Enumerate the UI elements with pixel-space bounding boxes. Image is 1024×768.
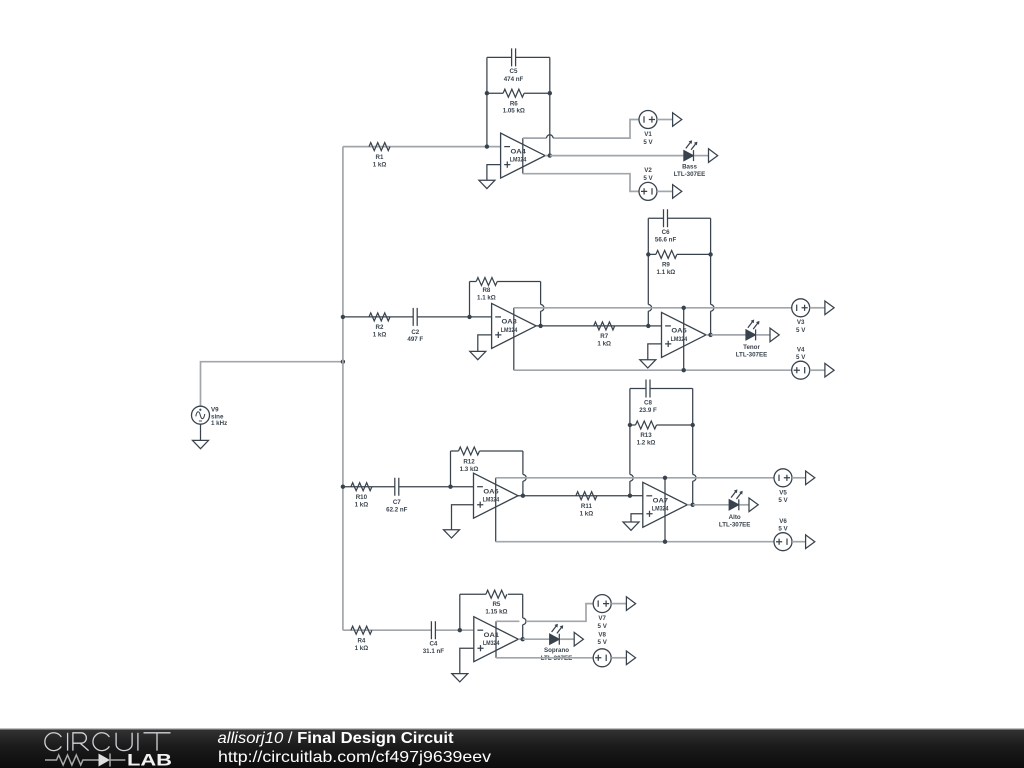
node stage2 bus junction: [341, 315, 345, 319]
wire R9 row: [648, 253, 710, 255]
wire hop C6R9-right over V+ row: [711, 305, 714, 312]
svg-text:Tenor: Tenor: [743, 344, 760, 351]
wire R12 left vertical: [450, 451, 452, 487]
wire R5 right vertical: [522, 594, 524, 639]
svg-text:R6: R6: [510, 100, 518, 107]
port flag V7: [626, 597, 635, 611]
svg-text:23.9 F: 23.9 F: [639, 407, 657, 414]
voltage source V7 5V: [593, 595, 611, 630]
wire OA4 output: [545, 155, 550, 157]
svg-text:C8: C8: [644, 400, 652, 407]
wire R12 row: [451, 450, 523, 452]
wire hop R5 over V+ row: [523, 618, 526, 625]
wire stage2 R7 to OA5: [648, 325, 661, 327]
op-amp OA1: [474, 617, 519, 662]
wire C6R9 right vertical: [710, 218, 712, 335]
node OA5 V- junction: [682, 368, 686, 372]
wire OA4 plus to ground: [487, 165, 501, 181]
wire OA6 plus to ground: [452, 505, 474, 530]
svg-text:5 V: 5 V: [598, 639, 608, 646]
wire R8 right vertical: [540, 282, 542, 326]
voltage source V4 5V: [792, 346, 810, 379]
wire hop C8R13-right over V+ row: [693, 474, 696, 481]
node R13 left junction: [628, 423, 632, 427]
svg-text:C7: C7: [393, 499, 401, 506]
wire stage2 input row: [343, 316, 492, 318]
svg-text:1 kHz: 1 kHz: [211, 420, 227, 427]
svg-text:497 F: 497 F: [407, 336, 423, 343]
svg-text:5 V: 5 V: [778, 526, 788, 533]
resistor R1: [369, 143, 390, 169]
port flag Bass output: [709, 149, 718, 163]
CircuitLab logo resistor-diode art: [45, 754, 125, 767]
wire OA6 output row: [518, 495, 630, 497]
svg-text:R5: R5: [492, 601, 500, 608]
svg-text:5 V: 5 V: [643, 139, 653, 146]
op-amp OA6: [474, 473, 519, 518]
svg-text:LM324: LM324: [510, 157, 527, 164]
svg-text:1.3 kΩ: 1.3 kΩ: [460, 466, 479, 473]
node R9 left junction: [646, 252, 650, 256]
capacitor C7: [386, 478, 408, 514]
wire hop R8 over V+ row: [541, 305, 544, 312]
wire stage3 output row: [693, 504, 729, 506]
wire V9 to bus: [201, 362, 343, 407]
wire V4 to port: [810, 369, 825, 371]
wire C8R13 right vertical: [692, 389, 694, 505]
resistor R10: [351, 483, 372, 509]
svg-text:1 kΩ: 1 kΩ: [580, 511, 594, 518]
port flag V5: [806, 471, 815, 485]
ground OA3: [470, 351, 486, 359]
svg-text:Soprano: Soprano: [544, 647, 569, 654]
voltage source V5 5V: [774, 469, 792, 504]
CircuitLab logo wordmark CIRCUIT: [45, 733, 171, 751]
svg-text:31.1 nF: 31.1 nF: [423, 648, 445, 655]
svg-text:LM324: LM324: [483, 497, 500, 504]
wire OA3 output row: [536, 325, 648, 327]
node V9-bus junction: [341, 360, 345, 364]
svg-text:R8: R8: [482, 287, 490, 294]
resistor R13: [636, 421, 657, 447]
svg-text:OA4: OA4: [511, 148, 527, 155]
wire OA7 power vertical: [664, 478, 666, 542]
wire R6 row: [487, 92, 550, 94]
node stage3 bus junction: [341, 485, 345, 489]
svg-text:1 kΩ: 1 kΩ: [355, 502, 369, 509]
wire R13 row: [630, 424, 693, 426]
wire C8 top row: [630, 388, 693, 390]
voltage source V3 5V: [792, 299, 810, 334]
svg-text:62.2 nF: 62.2 nF: [386, 507, 408, 514]
wire OA4 V- row to V2: [523, 174, 639, 192]
svg-text:LTL-307EE: LTL-307EE: [719, 522, 751, 529]
wire input bus: [342, 147, 344, 631]
wire V9 to ground: [200, 424, 202, 440]
voltage source V9: [192, 406, 228, 427]
node OA6 output: [521, 494, 525, 498]
wire V8 to port: [611, 657, 626, 659]
port flag V1: [673, 113, 682, 127]
ground OA5: [640, 360, 656, 368]
svg-text:OA1: OA1: [484, 632, 500, 639]
LED Bass LTL-307EE: [674, 140, 706, 178]
svg-text:1.15 kΩ: 1.15 kΩ: [485, 609, 507, 616]
capacitor C4: [423, 621, 445, 655]
wire OA3 plus to ground: [478, 335, 492, 352]
svg-text:OA7: OA7: [653, 498, 669, 505]
node OA7 V- junction: [663, 540, 667, 544]
svg-text:1.05 kΩ: 1.05 kΩ: [503, 107, 525, 114]
wire OA1 plus to ground: [460, 648, 474, 673]
node OA7 V+ junction: [663, 476, 667, 480]
svg-text:R7: R7: [600, 333, 608, 340]
wire OA5 power vertical: [683, 308, 685, 370]
LED Tenor LTL-307EE: [736, 320, 768, 359]
wire V1 to port: [657, 119, 673, 121]
wire hop C8R13-left over V+ row: [630, 474, 633, 481]
resistor R12: [459, 447, 480, 473]
svg-text:R9: R9: [662, 262, 670, 269]
svg-text:OA5: OA5: [671, 328, 687, 335]
resistor R7: [594, 322, 615, 348]
svg-text:C5: C5: [510, 68, 518, 75]
svg-text:R11: R11: [581, 503, 593, 510]
node OA7 output: [691, 503, 695, 507]
svg-text:LM324: LM324: [483, 640, 500, 647]
wire OA3 power vertical: [513, 308, 515, 370]
wire OA1 output: [518, 638, 522, 640]
ground OA4: [479, 180, 495, 188]
svg-text:V4: V4: [797, 346, 805, 353]
wire V7 to port: [611, 603, 626, 605]
wire OA1 power vertical: [495, 621, 497, 658]
wire C6 top row: [648, 217, 710, 219]
svg-text:5 V: 5 V: [778, 497, 788, 504]
op-amp OA4: [501, 133, 545, 178]
port flag V4: [825, 363, 834, 377]
wire OA7 plus to ground: [631, 514, 643, 522]
svg-text:R2: R2: [376, 324, 384, 331]
wire C5 top row: [487, 56, 550, 58]
svg-text:allisorj10 / Final Design Circ: allisorj10 / Final Design Circuit: [218, 730, 455, 747]
node OA5 inverting input: [646, 324, 650, 328]
ground below V9: [193, 440, 209, 448]
node OA6 inverting input: [448, 485, 452, 489]
wire stage2 V- row: [514, 369, 792, 371]
resistor R11: [576, 492, 597, 518]
op-amp OA3: [492, 303, 536, 348]
ground OA6: [444, 530, 460, 538]
svg-text:V3: V3: [797, 319, 805, 326]
voltage source V1 5V: [639, 111, 657, 146]
wire stage2 V+ row: [514, 307, 792, 309]
wire R8 left vertical: [469, 282, 471, 317]
port flag V3: [825, 301, 834, 315]
wire OA5 plus to ground: [648, 344, 662, 360]
svg-text:OA3: OA3: [502, 319, 518, 326]
resistor R5: [485, 590, 507, 616]
node R6 right junction: [548, 91, 552, 95]
svg-text:C2: C2: [411, 329, 419, 336]
svg-text:1.2 kΩ: 1.2 kΩ: [637, 440, 656, 447]
footer bar background: [0, 729, 1024, 768]
wire stage1 input row: [343, 146, 501, 148]
svg-text:1.1 kΩ: 1.1 kΩ: [477, 295, 496, 302]
resistor R2: [369, 313, 390, 339]
svg-text:R12: R12: [463, 458, 475, 465]
wire V5 to port: [792, 477, 806, 479]
svg-text:R10: R10: [356, 494, 368, 501]
wire stage3 V- row: [496, 541, 774, 543]
svg-text:LM324: LM324: [652, 506, 669, 513]
svg-text:LM324: LM324: [671, 336, 688, 343]
wire OA4 V+ row to V1: [523, 120, 639, 139]
svg-text:OA6: OA6: [483, 489, 499, 496]
LED Soprano LTL-307EE: [541, 624, 573, 662]
wire stage3 V+ row: [496, 477, 774, 479]
wire stage2 output row: [711, 334, 746, 336]
wire OA7 output: [687, 504, 692, 506]
capacitor C6: [655, 209, 677, 243]
wire C6R9 left vertical: [647, 218, 649, 326]
wire LED Soprano to port: [560, 638, 574, 640]
node OA3 inverting input: [467, 315, 471, 319]
wire OA1 V- row to V8: [496, 657, 593, 659]
svg-text:5 V: 5 V: [643, 175, 653, 182]
wire V3 to port: [810, 307, 825, 309]
svg-text:V7: V7: [598, 615, 606, 622]
wire R12 right vertical: [522, 451, 524, 496]
node OA3 output: [538, 324, 542, 328]
wire OA6 power vertical: [495, 478, 497, 542]
wire OA5 output: [706, 334, 711, 336]
svg-text:56.6 nF: 56.6 nF: [655, 237, 677, 244]
wire hop C6R9-left over V+ row: [648, 305, 651, 312]
node stage1 output: [548, 153, 552, 157]
svg-text:Alto: Alto: [729, 514, 741, 521]
wire hop R12 over V+ row: [523, 474, 526, 481]
LED Alto LTL-307EE: [719, 489, 751, 528]
svg-text:V2: V2: [644, 167, 652, 174]
resistor R8: [476, 278, 497, 302]
wire OA1 V+ row to V7: [496, 604, 593, 622]
wire stage4 input row: [343, 629, 474, 631]
svg-text:5 V: 5 V: [796, 327, 806, 334]
svg-text:R13: R13: [640, 432, 652, 439]
svg-text:R4: R4: [357, 637, 365, 644]
capacitor C5: [504, 48, 524, 83]
port flag Soprano output: [574, 632, 583, 646]
node R6 left junction: [485, 91, 489, 95]
svg-text:LTL-307EE: LTL-307EE: [736, 351, 768, 358]
svg-text:LTL-307EE: LTL-307EE: [674, 171, 706, 178]
svg-text:1 kΩ: 1 kΩ: [355, 645, 369, 652]
node stage1 inverting input: [485, 144, 489, 148]
wire R5 row: [460, 593, 523, 595]
capacitor C8: [639, 380, 657, 415]
wire LED Alto to port: [740, 504, 749, 506]
svg-text:V1: V1: [644, 131, 652, 138]
voltage source V8 5V: [593, 631, 611, 666]
port flag V2: [673, 185, 682, 199]
wire stage4 output row: [523, 638, 550, 640]
node OA7 inverting input: [628, 494, 632, 498]
wire C5R6 right vertical: [549, 57, 551, 155]
wire V2 to port: [657, 190, 673, 192]
svg-text:Bass: Bass: [682, 163, 697, 170]
wire R5 left vertical: [459, 594, 461, 630]
voltage source V2 5V: [639, 167, 657, 200]
svg-text:1 kΩ: 1 kΩ: [373, 161, 387, 168]
port flag V8: [626, 651, 635, 665]
wire hop V+ over feedback: [547, 135, 554, 138]
wire LED Tenor to port: [756, 334, 770, 336]
capacitor C2: [407, 308, 423, 343]
port flag Tenor output: [770, 328, 779, 342]
resistor R4: [351, 626, 372, 652]
node OA1 output: [521, 637, 525, 641]
svg-text:V6: V6: [779, 518, 787, 525]
wire C8R13 left vertical: [629, 389, 631, 496]
svg-text:C4: C4: [429, 640, 437, 647]
svg-text:1 kΩ: 1 kΩ: [373, 332, 387, 339]
svg-text:V5: V5: [779, 489, 787, 496]
wire V6 to port: [792, 541, 806, 543]
svg-text:1.1 kΩ: 1.1 kΩ: [657, 269, 676, 276]
node OA5 V+ junction: [682, 306, 686, 310]
wire R8 row: [470, 281, 541, 283]
wire C5R6 left vertical: [486, 57, 488, 146]
svg-text:V8: V8: [598, 631, 606, 638]
node R13 right junction: [691, 423, 695, 427]
svg-text:1 kΩ: 1 kΩ: [597, 341, 611, 348]
wire stage3 R11 to OA7: [630, 495, 643, 497]
svg-text:LAB: LAB: [127, 751, 172, 768]
svg-text:C6: C6: [662, 229, 670, 236]
wire OA4 power vertical: [522, 138, 524, 174]
resistor R9: [656, 250, 677, 276]
ground OA1: [452, 674, 468, 682]
node OA1 inverting input: [458, 628, 462, 632]
resistor R6: [503, 89, 525, 114]
wire stage1 output row: [550, 155, 684, 157]
svg-text:5 V: 5 V: [598, 623, 608, 630]
wire LED Bass to port: [694, 155, 708, 157]
node OA5 output: [708, 333, 712, 337]
voltage source V6 5V: [774, 518, 792, 551]
op-amp OA7: [643, 482, 688, 527]
wire stage3 input row: [343, 486, 474, 488]
port flag Alto output: [749, 498, 758, 512]
ground OA7: [623, 522, 639, 530]
svg-text:5 V: 5 V: [796, 354, 806, 361]
svg-text:R1: R1: [376, 154, 384, 161]
svg-text:474 nF: 474 nF: [504, 76, 524, 83]
node R9 right junction: [708, 252, 712, 256]
svg-text:http://circuitlab.com/cf497j96: http://circuitlab.com/cf497j9639eev: [218, 749, 491, 766]
port flag V6: [806, 535, 815, 549]
op-amp OA5: [662, 312, 707, 357]
svg-text:LM324: LM324: [501, 327, 518, 334]
